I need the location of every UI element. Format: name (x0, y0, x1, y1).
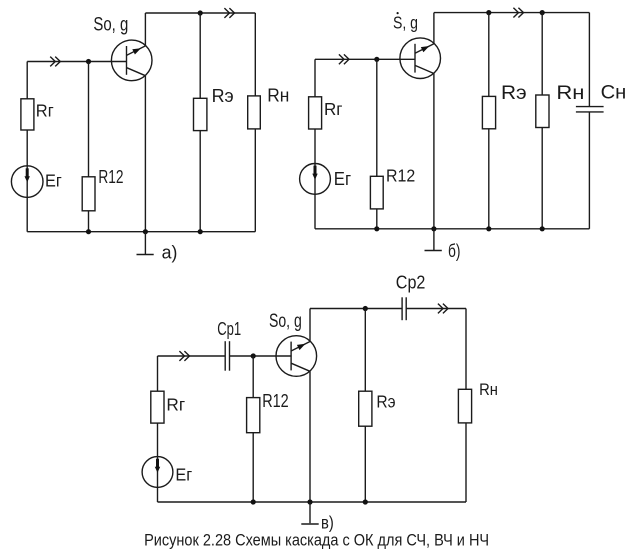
wire bottom rail (b) (315, 228, 589, 230)
wire collector to top rail (v) (309, 309, 311, 342)
node emitter bottom (b) (431, 226, 436, 231)
svg-text:R12: R12 (98, 167, 123, 188)
wire top rail right of Cp2 (v) (406, 308, 466, 310)
wire top rail left of Cp2 (v) (310, 308, 402, 310)
svg-text:So, g: So, g (269, 311, 302, 332)
wire Rн top (b) (541, 13, 543, 95)
node Rн bottom (b) (540, 226, 545, 231)
arrow input (b) (339, 54, 349, 64)
wire base input (a) (27, 61, 126, 63)
node R12 bottom (b) (374, 226, 379, 231)
svg-text:Рисунок 2.28 Схемы каскада с О: Рисунок 2.28 Схемы каскада с ОК для СЧ, … (144, 531, 489, 550)
wire Rэ top (b) (488, 13, 490, 97)
wire Rн bottom (a) (254, 129, 256, 232)
svg-text:Cн: Cн (601, 81, 627, 103)
wire Rг to bottom rail (b) (314, 129, 316, 229)
wire collector to top rail (a) (144, 13, 146, 46)
node R12 bottom (v) (251, 499, 256, 504)
node top rail junction (a) (198, 10, 203, 15)
resistor Rн (b) (536, 95, 549, 128)
capacitor Cн (b) (576, 107, 604, 112)
wire R12 top (a) (88, 62, 90, 177)
svg-text:Eг: Eг (45, 171, 62, 191)
wire bottom rail (v) (158, 501, 467, 503)
svg-text:Cр2: Cр2 (396, 271, 426, 292)
svg-text:R12: R12 (262, 391, 289, 411)
wire Rэ top (v) (364, 309, 366, 392)
resistor Rг (a) (21, 99, 34, 130)
resistor R12 (a) (82, 177, 95, 211)
arrow output (b) (513, 8, 523, 18)
svg-text:Rн: Rн (556, 83, 584, 104)
svg-text:Eг: Eг (175, 465, 192, 485)
capacitor Cp1 (v) (225, 341, 229, 371)
svg-text:Rг: Rг (324, 99, 343, 119)
svg-text:Cр1: Cр1 (217, 318, 241, 339)
source Eг (a) (11, 166, 43, 198)
node Rэ bottom (v) (363, 499, 368, 504)
wire Rн top (a) (254, 13, 256, 96)
wire R12 top (b) (376, 59, 378, 176)
wire R12 bottom (v) (252, 433, 254, 502)
transistor VT (a) (111, 40, 152, 81)
node base junction (v) (251, 353, 256, 358)
wire Cн top (b) (588, 13, 590, 107)
node top rail junction 2 (b) (540, 10, 545, 15)
node top rail junction 1 (b) (486, 10, 491, 15)
arrow input (a) (50, 57, 60, 67)
node R12 bottom (a) (86, 229, 91, 234)
svg-text:R12: R12 (386, 166, 415, 186)
arrow input (v) (179, 351, 189, 361)
node top rail junction (v) (363, 306, 368, 311)
svg-text:Rг: Rг (166, 395, 185, 415)
node Rэ bottom (b) (486, 226, 491, 231)
resistor R12 (v) (247, 398, 260, 433)
wire Rг top (b) (314, 59, 316, 97)
ground (a) (137, 232, 154, 255)
capacitor Cp2 (v) (402, 297, 406, 320)
svg-text:а): а) (162, 243, 178, 263)
transistor VT (b) (400, 38, 441, 79)
arrow output (a) (224, 8, 234, 18)
svg-text:Eг: Eг (334, 169, 352, 189)
svg-text:Rэ: Rэ (212, 86, 234, 106)
node base junction (b) (374, 57, 379, 62)
svg-text:So, g: So, g (93, 13, 128, 35)
wire input left of Cp1 (v) (158, 355, 226, 357)
wire Rэ bottom (v) (364, 426, 366, 502)
svg-text:Rэ: Rэ (376, 392, 395, 412)
wire Rн bottom (v) (465, 423, 467, 502)
node emitter bottom (v) (307, 499, 312, 504)
node base junction (a) (86, 59, 91, 64)
resistor Rэ (b) (482, 96, 495, 128)
resistor Rг (b) (309, 97, 322, 129)
resistor Rн (v) (458, 389, 471, 423)
wire Rэ top (a) (199, 13, 201, 98)
svg-text:Rн: Rн (479, 381, 498, 399)
wire Rг to bottom rail (v) (157, 423, 159, 502)
resistor Rг (v) (151, 391, 164, 423)
wire R12 bottom (a) (88, 211, 90, 232)
svg-text:S, g: S, g (393, 12, 418, 32)
label S, g with dot (b) (393, 12, 418, 32)
wire Rн top (v) (465, 309, 467, 390)
source Eг (b) (300, 164, 331, 195)
svg-text:Rг: Rг (36, 101, 54, 121)
resistor Rэ (v) (359, 391, 372, 426)
resistor R12 (b) (370, 176, 383, 209)
svg-text:в): в) (321, 513, 334, 533)
svg-text:Rэ: Rэ (501, 83, 527, 104)
wire R12 top (v) (252, 356, 254, 398)
wire emitter down (b) (433, 74, 435, 229)
ground (b) (425, 229, 442, 251)
svg-text:Rн: Rн (267, 85, 289, 105)
wire emitter down (v) (309, 371, 311, 502)
arrow output (v) (438, 304, 448, 314)
wire Rг top (v) (157, 356, 159, 391)
wire R12 bottom (b) (376, 209, 378, 229)
source Eг (v) (142, 457, 173, 488)
resistor Rн (a) (248, 96, 261, 129)
wire top rail (b) (434, 12, 590, 14)
wire Rг top (a) (26, 62, 28, 99)
node Rэ bottom (a) (198, 229, 203, 234)
wire Rэ bottom (a) (199, 131, 201, 232)
resistor Rэ (a) (194, 98, 207, 130)
wire collector to top rail (b) (433, 13, 435, 44)
ground (v) (301, 502, 318, 524)
wire base input (v) (230, 355, 292, 357)
node emitter bottom (a) (143, 229, 148, 234)
wire Rн bottom (b) (541, 128, 543, 229)
wire emitter down (a) (144, 76, 146, 232)
wire top rail (a) (145, 12, 255, 14)
wire Cн bottom (b) (588, 112, 590, 229)
wire base input (b) (315, 58, 415, 60)
wire Rг to bottom rail (a) (26, 130, 28, 232)
svg-text:б): б) (448, 241, 461, 261)
transistor VT (v) (276, 336, 317, 377)
wire bottom rail (a) (27, 231, 255, 233)
wire Rэ bottom (b) (488, 129, 490, 229)
